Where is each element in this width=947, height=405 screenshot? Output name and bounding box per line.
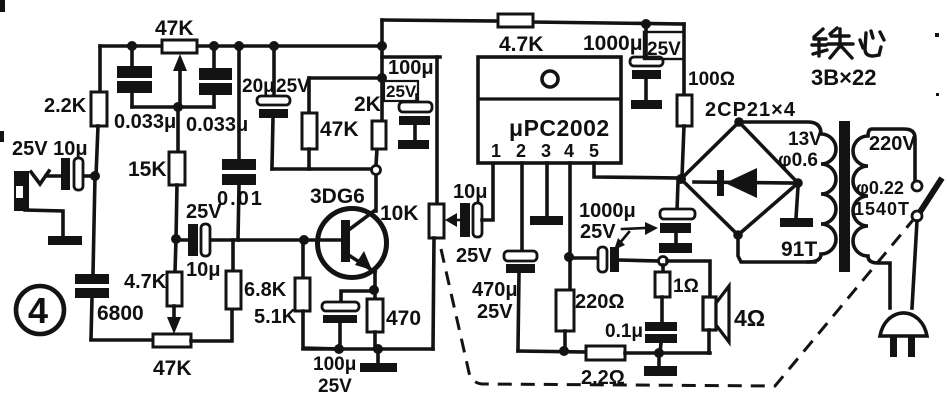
svg-text:4: 4 bbox=[28, 290, 48, 331]
arrow 25V to filter bbox=[622, 222, 658, 235]
arrow label to 1000u bbox=[614, 232, 629, 250]
resistor R 2K bbox=[354, 93, 386, 149]
svg-text:470: 470 bbox=[386, 307, 421, 330]
node bias junction bbox=[171, 234, 181, 244]
wire supply drop segment bbox=[382, 55, 440, 59]
label core bbox=[812, 28, 884, 58]
svg-text:10μ: 10μ bbox=[453, 181, 487, 203]
svg-text:47K: 47K bbox=[320, 118, 359, 141]
resistor R 5.1K bbox=[254, 240, 340, 349]
ground jack bbox=[25, 210, 82, 245]
svg-text:470μ: 470μ bbox=[472, 279, 518, 301]
capacitor C 0.01 bbox=[217, 41, 264, 240]
wire rail to speaker bbox=[625, 348, 710, 358]
capacitor C 1000u filter top bbox=[583, 24, 663, 100]
svg-text:100μ: 100μ bbox=[388, 57, 434, 79]
node input junction bbox=[90, 171, 100, 274]
svg-text:47K: 47K bbox=[155, 17, 194, 40]
ground output rail bbox=[644, 353, 677, 376]
svg-text:2: 2 bbox=[516, 141, 526, 161]
transformer core bbox=[839, 121, 850, 272]
svg-text:91T: 91T bbox=[781, 238, 817, 261]
svg-text:20μ: 20μ bbox=[242, 76, 275, 97]
node output circle bbox=[659, 257, 668, 266]
svg-text:6800: 6800 bbox=[97, 302, 144, 325]
label 25V boxed bbox=[644, 32, 684, 60]
resistor R 4.7K bbox=[498, 14, 543, 56]
wire pin4 lead bbox=[564, 163, 574, 290]
svg-text:μPC2002: μPC2002 bbox=[509, 115, 610, 141]
transistor Q1 3DG6 bbox=[310, 185, 387, 278]
resistor R 1ohm bbox=[655, 265, 699, 322]
ground pin3 bbox=[530, 216, 563, 225]
wire collector feed bbox=[272, 167, 371, 171]
capacitor C 100u emitter bbox=[313, 291, 374, 397]
pin numbers 1 2 3 4 5 bbox=[491, 141, 599, 161]
wiper arrow into 47K top bbox=[173, 54, 187, 107]
wire pin3 lead bbox=[545, 163, 549, 216]
ground bar under 1000u bbox=[631, 100, 662, 109]
svg-text:1000μ: 1000μ bbox=[583, 32, 643, 55]
transformer winding secondary 13V bbox=[743, 122, 836, 262]
svg-text:6.8K: 6.8K bbox=[244, 279, 287, 301]
wire base bbox=[211, 235, 342, 245]
svg-text:220Ω: 220Ω bbox=[575, 291, 624, 313]
speaker LS 4ohm bbox=[703, 286, 765, 353]
svg-text:100μ: 100μ bbox=[313, 354, 356, 375]
svg-text:47K: 47K bbox=[153, 357, 192, 380]
terminal upper bbox=[912, 181, 922, 191]
transformer winding primary 220V bbox=[853, 129, 916, 308]
wire pin2 lead bbox=[520, 163, 524, 251]
resistor R 47K top pot bbox=[155, 17, 197, 53]
svg-text:3B×22: 3B×22 bbox=[811, 65, 876, 90]
capacitor C 6800 bbox=[75, 274, 144, 339]
svg-text:13V: 13V bbox=[788, 129, 822, 150]
plug AC bbox=[880, 313, 927, 357]
svg-text:25V: 25V bbox=[386, 82, 417, 101]
svg-text:10K: 10K bbox=[380, 202, 419, 225]
svg-text:220V: 220V bbox=[869, 133, 916, 155]
wire caps bottom bbox=[132, 102, 214, 112]
svg-text:25V: 25V bbox=[477, 301, 513, 323]
svg-text:2K: 2K bbox=[354, 93, 381, 116]
resistor R 4.7K vertical bbox=[124, 239, 182, 334]
resistor R 100ohm bbox=[677, 24, 735, 177]
potentiometer R 10K volume bbox=[380, 57, 444, 349]
resistor R 47K bias pot bbox=[153, 334, 192, 380]
svg-text:25V: 25V bbox=[580, 221, 616, 243]
svg-text:5: 5 bbox=[589, 141, 599, 161]
node 1000u tap bbox=[641, 19, 651, 29]
svg-text:1: 1 bbox=[491, 141, 501, 161]
node collector circle bbox=[372, 149, 381, 211]
svg-text:φ0.6: φ0.6 bbox=[778, 150, 818, 171]
wire pin5 to bridge bbox=[594, 163, 681, 178]
svg-text:1000μ: 1000μ bbox=[579, 200, 636, 222]
resistor R 470 bbox=[367, 272, 421, 349]
wire top preamp rail bbox=[100, 44, 383, 48]
dashed linkage pot to switch bbox=[441, 220, 913, 386]
svg-text:3: 3 bbox=[541, 141, 551, 161]
resistor R 15K bbox=[128, 107, 185, 239]
svg-text:5.1K: 5.1K bbox=[254, 306, 297, 328]
node supply junction column bbox=[377, 20, 387, 121]
svg-text:25V 10μ: 25V 10μ bbox=[12, 138, 88, 160]
wire output to speaker top bbox=[667, 261, 710, 297]
svg-text:15K: 15K bbox=[128, 158, 167, 181]
figure number 4 bbox=[16, 286, 64, 334]
svg-text:4Ω: 4Ω bbox=[734, 305, 765, 331]
svg-text:1Ω: 1Ω bbox=[673, 276, 699, 297]
capacitor C 10u base bbox=[176, 201, 222, 281]
capacitor C 10u pot out bbox=[453, 163, 493, 267]
wire switch to plug bbox=[912, 221, 917, 308]
resistor R 220ohm bbox=[556, 290, 624, 351]
wire emitter ground rail bbox=[303, 344, 433, 354]
capacitor C 470u bbox=[472, 251, 537, 351]
svg-text:φ0.22: φ0.22 bbox=[856, 178, 904, 198]
capacitor C 0.033u first bbox=[114, 41, 176, 133]
diode D inside bridge bbox=[694, 168, 794, 198]
capacitor C 20u bbox=[242, 41, 310, 169]
op-amp U1 uPC2002 bbox=[478, 57, 621, 163]
resistor R 2.2ohm bbox=[581, 346, 625, 389]
svg-text:4: 4 bbox=[564, 141, 574, 161]
resistor R 47K mid bbox=[302, 78, 382, 169]
label 25V boxed supply bbox=[384, 81, 418, 101]
svg-text:4.7K: 4.7K bbox=[499, 33, 543, 56]
wiper arrow 10K bbox=[445, 213, 461, 227]
wire top +V rail bbox=[382, 20, 684, 24]
svg-text:0.033μ: 0.033μ bbox=[114, 111, 176, 133]
svg-text:25V: 25V bbox=[318, 376, 352, 397]
wire bias bottom right bbox=[191, 309, 232, 341]
wire feedback bottom rail bbox=[518, 346, 587, 356]
svg-text:2CP21×4: 2CP21×4 bbox=[705, 99, 796, 121]
svg-text:4.7K: 4.7K bbox=[124, 271, 167, 293]
svg-text:2.2K: 2.2K bbox=[44, 95, 87, 117]
svg-text:25V: 25V bbox=[456, 245, 492, 267]
resistor R 6.8K bbox=[226, 240, 287, 309]
svg-text:25V: 25V bbox=[276, 76, 310, 97]
svg-text:10μ: 10μ bbox=[186, 259, 220, 281]
switch SW blade bbox=[920, 178, 942, 212]
svg-text:0.01: 0.01 bbox=[217, 188, 264, 210]
capacitor C 100u supply bbox=[388, 57, 434, 149]
svg-text:3DG6: 3DG6 bbox=[310, 185, 365, 208]
capacitor C 1000u output bbox=[570, 200, 659, 272]
ground main filter bbox=[659, 243, 692, 253]
wire bridge bottom to winding bbox=[738, 235, 815, 262]
jack J input bbox=[12, 138, 88, 211]
svg-text:100Ω: 100Ω bbox=[688, 69, 735, 90]
diode bridge 2CP21x4 bbox=[676, 99, 803, 240]
capacitor C 1000u main filter bbox=[660, 182, 695, 243]
svg-text:1540T: 1540T bbox=[854, 199, 910, 219]
capacitor C 10u input bbox=[61, 158, 95, 190]
ground bridge right bbox=[780, 187, 817, 261]
artifacts scan marks bbox=[0, 0, 939, 142]
svg-text:25V: 25V bbox=[647, 39, 681, 60]
terminal lower bbox=[912, 211, 922, 221]
capacitor C 0.033u second bbox=[186, 41, 248, 136]
resistor R 2.2K bbox=[44, 46, 107, 176]
wire bias bottom bbox=[91, 338, 153, 342]
svg-text:0.1μ: 0.1μ bbox=[605, 321, 643, 342]
ground emitter rail bbox=[360, 349, 397, 372]
capacitor C 0.1u bbox=[605, 321, 677, 353]
